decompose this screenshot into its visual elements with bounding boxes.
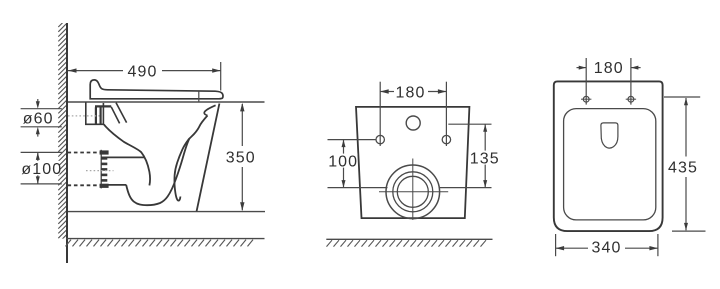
ground hatching (front view) — [327, 240, 487, 246]
seat hinge line — [198, 91, 200, 101]
right mounting hole — [442, 135, 450, 143]
inlet hole (front view) — [406, 116, 420, 130]
wall line — [66, 23, 68, 263]
toilet top line / 350 extension line — [68, 101, 265, 103]
water inlet connector box — [86, 102, 104, 124]
waste pipe top line — [101, 156, 145, 158]
floor hatching (side view) — [66, 240, 254, 247]
waste centerline (dotted) — [86, 170, 114, 172]
dimension 435 — [664, 97, 706, 231]
inlet centerline (dotted) — [68, 115, 100, 117]
top view outer outline — [554, 81, 663, 231]
front view outline — [356, 107, 469, 218]
dimension 340 — [556, 234, 658, 257]
top view seat outline — [564, 109, 656, 220]
toilet seat profile — [90, 80, 223, 99]
outlet crosshair — [379, 191, 448, 193]
left mounting hole — [376, 135, 384, 143]
dimension 100 — [328, 140, 388, 188]
svg-text:340: 340 — [592, 240, 622, 257]
ground line (front view) — [326, 238, 492, 240]
svg-text:435: 435 — [668, 160, 698, 177]
dimension 350 — [226, 103, 256, 211]
dimension 490 — [68, 62, 221, 91]
svg-text:180: 180 — [594, 60, 624, 77]
dimension 180 (front view) — [380, 82, 446, 146]
inlet pipe bars — [95, 107, 97, 124]
dimension ø60 — [21, 99, 62, 137]
svg-text:180: 180 — [396, 84, 426, 101]
waste pipe dashed top line — [68, 152, 101, 154]
svg-text:100: 100 — [328, 154, 358, 171]
dimension 135 — [440, 124, 500, 187]
rim hook (back inner rim) — [204, 105, 215, 115]
inlet top bar — [95, 105, 111, 107]
waste pipe bottom line — [101, 184, 126, 186]
left hinge bolt — [581, 96, 591, 102]
bowl underside — [126, 138, 189, 205]
toilet back edge — [197, 104, 220, 212]
toilet bottom reference line — [68, 211, 265, 213]
outlet circles — [386, 165, 440, 219]
right hinge bolt — [626, 96, 636, 102]
bowl inner S-curve — [174, 116, 207, 201]
waste pipe dashed bottom line — [68, 184, 101, 186]
floor line (side view) — [66, 238, 265, 240]
waste pipe flange stem — [100, 150, 102, 189]
dimension ø100 — [21, 152, 63, 184]
bowl front outer curve — [104, 124, 150, 185]
svg-text:350: 350 — [226, 149, 256, 166]
flush recess — [601, 123, 618, 148]
hinge bracket diagonal 1 — [111, 107, 119, 124]
hinge bracket diagonal 2 — [116, 103, 127, 123]
dimension 180 (top view) — [577, 58, 641, 105]
svg-text:135: 135 — [470, 150, 500, 167]
svg-text:ø100: ø100 — [21, 161, 62, 178]
waste pipe flange — [100, 150, 109, 188]
svg-text:ø60: ø60 — [23, 110, 54, 127]
svg-text:490: 490 — [128, 64, 158, 81]
